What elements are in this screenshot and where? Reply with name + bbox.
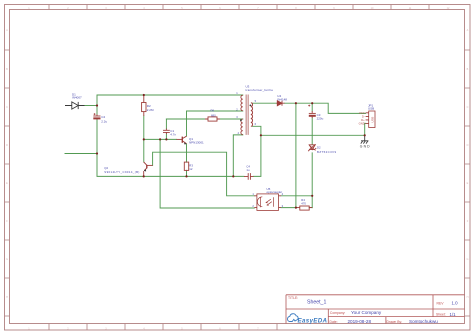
- label C1 4.7n: [170, 129, 176, 136]
- junction transformer pin4 on return rail: [232, 175, 234, 177]
- svg-text:Company:: Company:: [330, 311, 346, 315]
- label C4 1u: [246, 165, 250, 172]
- junction sense drop on output rail: [295, 102, 297, 104]
- transformer U3 transformer_ferrite: [241, 95, 253, 135]
- svg-text:1.0: 1.0: [452, 301, 459, 306]
- label U3 transformer_ferrite: [246, 85, 274, 92]
- svg-text:IN4148: IN4148: [277, 97, 287, 101]
- svg-text:USB: USB: [371, 117, 375, 123]
- resistor R6 680: [205, 117, 220, 121]
- wire base drop to Q2: [143, 139, 145, 162]
- junction opto pin4 / zener branch: [311, 195, 313, 197]
- svg-text:Sheet_1: Sheet_1: [307, 300, 326, 306]
- label U5 optocoupler: [267, 187, 283, 194]
- junction R2 bottom / Q2 base: [143, 138, 145, 140]
- label U4 IN4148: [277, 94, 287, 101]
- capacitor C2 2.2u electrolytic: [93, 113, 100, 119]
- svg-text:2.2u: 2.2u: [101, 119, 107, 123]
- svg-text:optocoupler: optocoupler: [267, 190, 283, 194]
- wire R4 right lead to zener branch: [309, 207, 312, 209]
- wire zener branch x=312: [311, 103, 313, 207]
- svg-text:EasyEDA: EasyEDA: [298, 317, 328, 324]
- wire R2 bottom to base line: [143, 116, 145, 139]
- resistor R2 2.2M: [142, 95, 146, 116]
- junction R3 bottom on return rail: [185, 175, 187, 177]
- wire R6 line to transformer pin 3: [166, 118, 242, 120]
- zener D2 BZT52C3V9: [308, 144, 316, 151]
- wire AC input bottom: [65, 153, 97, 155]
- wire AC input top to D1 junction: [85, 105, 98, 107]
- svg-text:2.2M: 2.2M: [147, 108, 154, 112]
- svg-text:2019-08-28: 2019-08-28: [348, 319, 372, 324]
- label R3 12: [189, 163, 193, 171]
- resistor R4 470: [297, 206, 312, 210]
- wire Q2 collector loop to optocoupler pin 1: [153, 152, 255, 196]
- wire USB GND drop to ground: [364, 123, 367, 135]
- svg-text:C: C: [467, 106, 469, 109]
- svg-text:12: 12: [189, 167, 193, 171]
- svg-text:IN4007: IN4007: [72, 96, 82, 100]
- svg-text:680: 680: [211, 113, 216, 117]
- transformer pin numbers: [236, 91, 256, 135]
- title block: [286, 295, 465, 324]
- USB connector JP1: [366, 111, 375, 128]
- wire Q1 emitter to R3: [186, 144, 188, 176]
- svg-text:USB: USB: [368, 107, 374, 111]
- optocoupler pin numbers 1 2 3 4: [252, 192, 283, 208]
- wire opto pin3 to R4: [281, 207, 297, 209]
- label C2 2.2u: [101, 115, 107, 123]
- EasyEDA logo: [288, 314, 328, 325]
- label D2 BZT52C3V9: [317, 145, 336, 154]
- wire feedback drop x=160: [160, 139, 254, 208]
- transformer phase dots: [240, 119, 242, 121]
- capacitor C1 4.7n: [163, 129, 170, 134]
- junction R4 line / sense drop: [295, 207, 297, 209]
- diode U4 1N4148: [276, 101, 284, 106]
- ground symbol GND: [361, 135, 369, 143]
- junction C3 branch on output rail: [311, 102, 313, 104]
- junction feedback drop on base line: [159, 138, 161, 140]
- svg-text:NPN13001: NPN13001: [189, 140, 204, 144]
- wire Q1 collector up to transformer pin 2: [187, 111, 243, 136]
- junction C1 bottom on base line: [165, 138, 167, 140]
- wire transformer pin 4 drop: [233, 135, 243, 177]
- svg-text:BZT52C3V9: BZT52C3V9: [317, 150, 336, 154]
- svg-text:D: D: [6, 144, 8, 147]
- USB pin names VCC D- D+ GND: [359, 111, 366, 126]
- svg-text:220u: 220u: [317, 116, 324, 120]
- svg-text:C2: C2: [101, 115, 105, 119]
- svg-text:Date:: Date:: [330, 320, 338, 324]
- svg-text:Your Company: Your Company: [351, 310, 382, 315]
- svg-text:G: G: [467, 258, 469, 261]
- transistor Q1 NPN13001: [177, 136, 187, 144]
- wire opto pin4 to zener branch: [281, 195, 312, 197]
- svg-text:REV: REV: [437, 301, 445, 305]
- svg-text:Sheet:: Sheet:: [436, 313, 446, 317]
- wire sense drop x=296: [295, 103, 297, 207]
- svg-text:D2: D2: [317, 145, 321, 149]
- svg-text:1u: 1u: [246, 168, 250, 172]
- wire secondary ground line: [261, 134, 365, 136]
- diode D1 1N4007 (black): [65, 102, 85, 109]
- transistor Q2 S9014: [144, 162, 153, 176]
- capacitor C3 220u electrolytic: [308, 105, 316, 118]
- wire transformer pin 5 to rectifier: [253, 102, 277, 104]
- junction USB GND / secondary ground line: [364, 134, 366, 136]
- wire rectifier output rail to USB VCC: [285, 103, 366, 113]
- junction AC return / C2 bottom: [96, 152, 98, 154]
- svg-text:G: G: [6, 258, 8, 261]
- svg-text:C: C: [6, 106, 8, 109]
- wire transformer pin 6: [253, 126, 261, 135]
- svg-text:TITLE:: TITLE:: [288, 296, 298, 300]
- svg-text:1/1: 1/1: [450, 312, 457, 317]
- svg-text:S9014LTY_C9014_(B): S9014LTY_C9014_(B): [104, 170, 139, 174]
- svg-text:D: D: [467, 144, 469, 147]
- svg-text:GND: GND: [360, 144, 370, 148]
- wire C2 branch down through C2: [97, 106, 244, 177]
- junction Q2 emitter on return rail: [143, 175, 145, 177]
- svg-text:H: H: [6, 296, 8, 299]
- junction D1 cathode / C2 / top rail: [96, 104, 98, 106]
- label Q2 S9014LTY_C9014_(B): [104, 166, 139, 174]
- svg-text:R6: R6: [211, 108, 215, 112]
- junction pin6 / secondary ground line: [260, 134, 262, 136]
- label Q1 NPN13001: [189, 137, 204, 144]
- optocoupler U5: [254, 194, 281, 211]
- label C3 220u: [317, 113, 324, 120]
- svg-text:Somtochukwu: Somtochukwu: [409, 319, 438, 324]
- wire C1 top branch: [165, 119, 167, 139]
- svg-text:Drawn By:: Drawn By:: [387, 320, 403, 324]
- label R2 2.2M: [147, 104, 154, 112]
- label R4 470: [301, 198, 306, 205]
- junction R2 top on rail: [143, 94, 145, 96]
- resistor R3 12: [184, 162, 188, 170]
- wire C4 right to pin 6 vertical: [254, 135, 261, 176]
- label D1 IN4007: [72, 92, 82, 99]
- capacitor C4 1u: [244, 173, 254, 180]
- svg-text:transformer_ferrite: transformer_ferrite: [246, 88, 274, 92]
- svg-text:GND: GND: [359, 122, 365, 126]
- wire base line Q1: [144, 138, 177, 140]
- label R6 680: [211, 108, 217, 117]
- svg-text:H: H: [467, 296, 469, 299]
- svg-text:4.7n: 4.7n: [170, 132, 176, 136]
- wire top rail from D1 junction up and right to transformer pin 1: [97, 95, 243, 106]
- label JP1 USB: [368, 103, 374, 110]
- svg-text:470: 470: [301, 201, 306, 205]
